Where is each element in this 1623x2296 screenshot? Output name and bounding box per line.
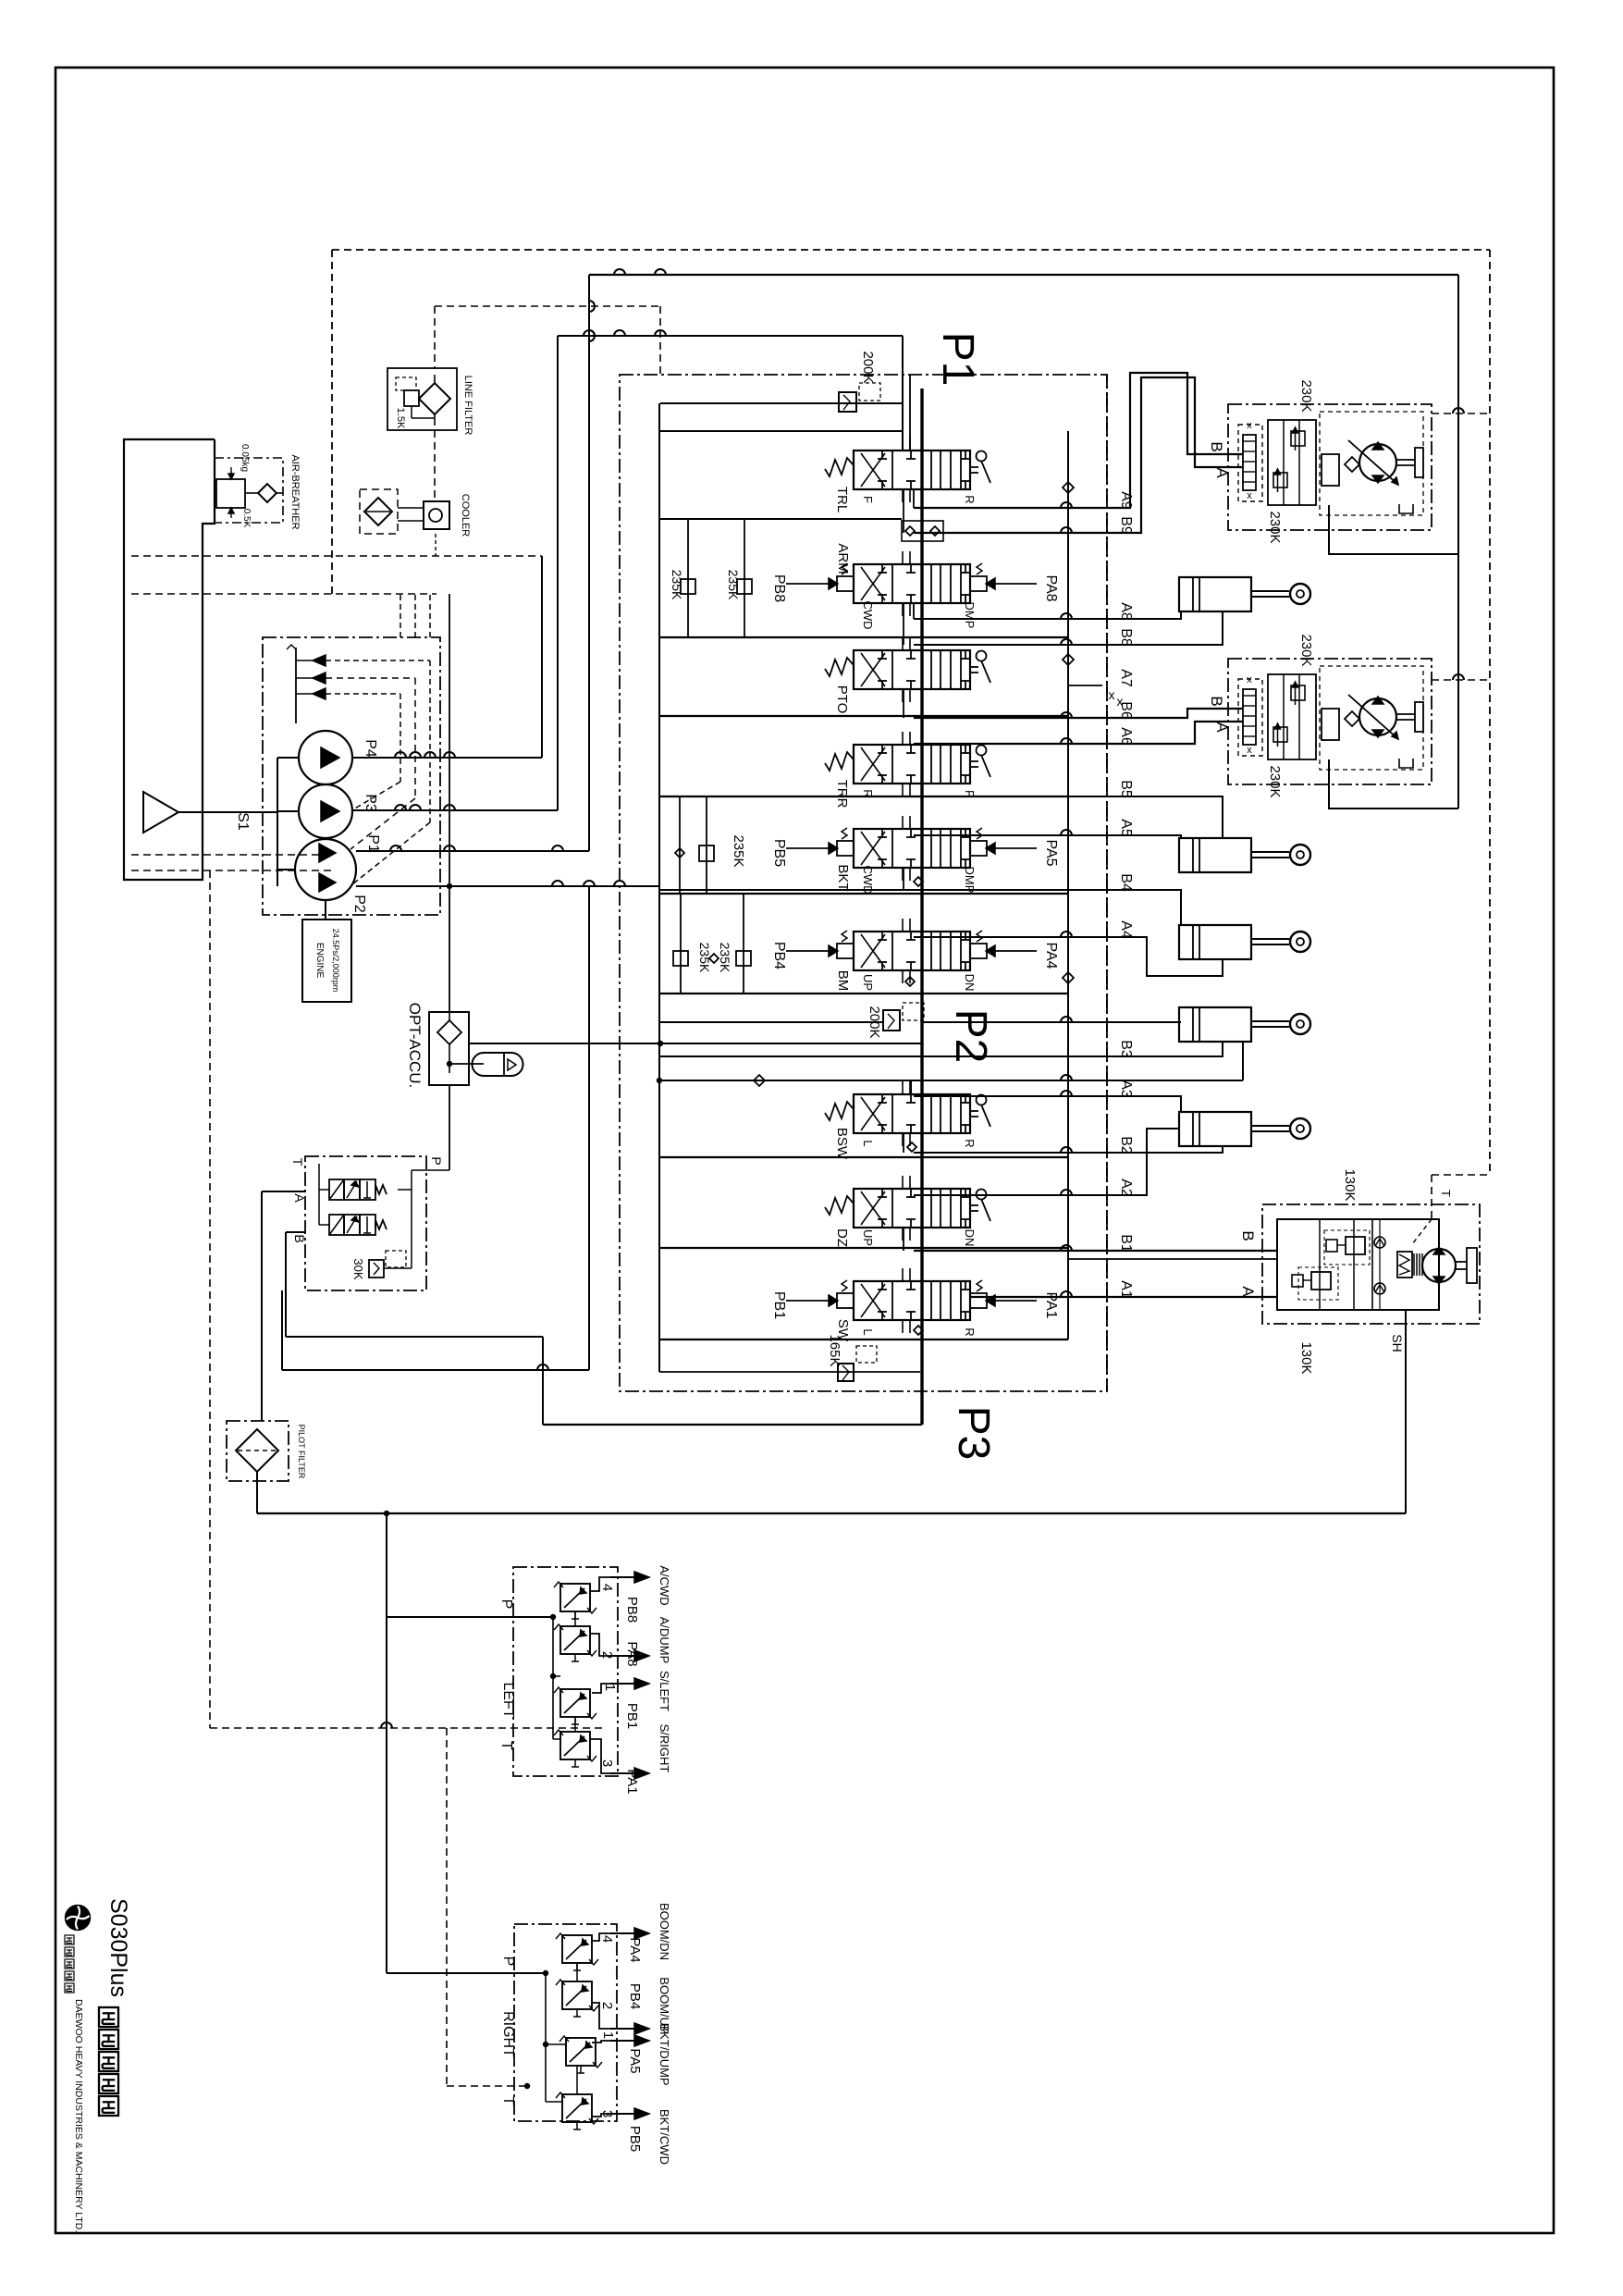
A port line to pilot filter (262, 1191, 305, 1192)
accumulator line into bank (469, 1043, 922, 1044)
travel motor 1 counterbalance block (1268, 420, 1316, 505)
svg-text:P: P (498, 1599, 514, 1610)
B1 line to swing motor (914, 1250, 1277, 1252)
travel motor 1 brake shuttle (1238, 425, 1262, 501)
165K relief line (659, 1371, 920, 1373)
A5 line to bucket cylinder (914, 835, 1181, 838)
svg-text:T: T (290, 1158, 305, 1167)
svg-text:A2: A2 (1118, 1179, 1134, 1197)
200K main relief valve (660, 402, 903, 404)
travel motor T dashed links (1432, 413, 1490, 414)
B9 line to travel motor 1 (914, 377, 1243, 533)
travel motor 1 motor sub-circuit (1322, 454, 1339, 486)
Korean company name small (65, 1935, 74, 1944)
relief valve 30K (369, 1260, 384, 1278)
travel motor 1 enclosure (1228, 404, 1432, 530)
svg-text:4: 4 (599, 1935, 615, 1943)
valve bank right return gallery (1067, 431, 1069, 1339)
hydraulic cylinder 3 (1179, 925, 1251, 959)
RIGHT output BOOM/DN (592, 1933, 610, 1941)
main control valve dash-dot enclosure P1/P2/P3 (620, 375, 1107, 1391)
svg-text:230K: 230K (1298, 379, 1314, 412)
LEFT pilot valve 2 (560, 1626, 590, 1654)
A6 line to travel motor 2 (914, 722, 1243, 744)
svg-text:ARM: ARM (835, 543, 851, 574)
svg-text:TRR: TRR (834, 780, 850, 809)
svg-text:165K: 165K (827, 1334, 842, 1366)
B4 line to boom cylinder (659, 890, 1181, 925)
drain riser right (1457, 275, 1459, 809)
pump P2 delivery line (356, 885, 659, 887)
svg-text:130K: 130K (1342, 1168, 1358, 1201)
svg-text:P3: P3 (949, 1406, 998, 1461)
hydraulic cylinder 2 (1179, 838, 1251, 872)
svg-text:CWD: CWD (861, 600, 875, 629)
svg-text:235K: 235K (731, 834, 746, 867)
svg-text:S1: S1 (235, 812, 251, 831)
svg-text:P1: P1 (365, 834, 381, 853)
svg-text:235K: 235K (670, 570, 684, 600)
travel motor 1 drain plug (1399, 504, 1413, 513)
svg-text:BKT: BKT (835, 864, 851, 891)
svg-text:1.5K: 1.5K (395, 408, 406, 429)
engine (302, 920, 351, 1002)
P1 supply header to travel motors (589, 274, 1458, 276)
LEFT output S/LEFT (592, 1684, 610, 1693)
return line to tank filter (543, 1424, 922, 1426)
svg-text:4: 4 (599, 1584, 615, 1591)
Daewoo logo (66, 1906, 90, 1930)
svg-text:T: T (498, 1741, 514, 1750)
travel motor 1 hydraulic motor (1359, 444, 1396, 481)
load check bridge TRL-ARM (902, 521, 943, 541)
RIGHT output BKT/DUMP (592, 2041, 610, 2043)
svg-text:0.05kg: 0.05kg (240, 444, 250, 472)
svg-text:B: B (1208, 441, 1225, 451)
svg-text:PB4: PB4 (771, 942, 787, 969)
travel motor 2 counterbalance block (1268, 674, 1316, 759)
svg-text:PA4: PA4 (627, 1937, 643, 1962)
RIGHT pilot valve 2 (562, 1981, 592, 2009)
svg-text:0.5K: 0.5K (241, 509, 252, 528)
spare cylinder cap line (922, 1021, 1181, 1023)
LEFT output S/RIGHT (590, 1739, 610, 1773)
hydraulic tank (124, 439, 215, 880)
B2 line to dozer cylinder rod (914, 1146, 1223, 1153)
svg-text:LINE FILTER: LINE FILTER (462, 376, 473, 436)
pump P4 (299, 731, 352, 784)
pilot supply manifold to remote controls (257, 1512, 1406, 1514)
RIGHT pilot valve 1 (566, 2038, 596, 2066)
travel motor 2 drain (1329, 759, 1458, 809)
RIGHT internal piping (387, 1972, 546, 1974)
svg-text:235K: 235K (697, 943, 712, 973)
svg-text:UP: UP (861, 1229, 875, 1246)
LEFT output A/DUMP (590, 1634, 610, 1656)
svg-text:S030Plus: S030Plus (105, 1898, 131, 1997)
block internal wires (318, 1164, 320, 1190)
pump P1/P2 double pump (295, 839, 356, 900)
svg-text:1: 1 (602, 1684, 618, 1691)
svg-text:DN: DN (963, 974, 977, 992)
svg-text:S/LEFT: S/LEFT (658, 1671, 671, 1711)
pump group dash-dot enclosure (263, 637, 440, 915)
valve section BSW (854, 1094, 970, 1133)
svg-text:1: 1 (600, 2031, 616, 2039)
A8 line to arm cylinder (914, 611, 1181, 619)
svg-text:A/CWD: A/CWD (658, 1565, 671, 1605)
A2 work line (914, 1129, 1179, 1195)
main pressure gallery (920, 389, 923, 1425)
svg-text:P: P (500, 1957, 516, 1967)
svg-text:x: x (1247, 745, 1252, 756)
inter-section check diamonds (914, 877, 923, 886)
svg-text:PA8: PA8 (1043, 574, 1059, 601)
port relief 235K ARM-B (687, 519, 689, 637)
valve bank left gallery (658, 403, 660, 1372)
port relief 235K BKT (679, 796, 681, 894)
tank return dashed stubs (131, 854, 332, 856)
accu supply riser (449, 594, 450, 1012)
svg-text:230K: 230K (1298, 634, 1314, 666)
valve section BKT (854, 829, 970, 868)
line filter (387, 368, 457, 430)
B port line (286, 1231, 305, 1233)
valve section DZ (854, 1189, 970, 1228)
pilot dashed line from line filter to valve bank (435, 305, 660, 307)
solenoid valve block enclosure (305, 1156, 426, 1290)
pump P3 (299, 784, 352, 838)
svg-text:P2: P2 (351, 895, 367, 913)
swing relief valve upper (1346, 1237, 1365, 1254)
svg-text:A7: A7 (1118, 669, 1134, 687)
A9 line to travel motor 1 (914, 373, 1243, 508)
svg-text:30K: 30K (351, 1258, 365, 1279)
LEFT pilot valve 3 (560, 1732, 590, 1759)
valve section SW (854, 1281, 970, 1320)
travel motor 1 drain (1329, 505, 1458, 554)
svg-text:BKT/DUMP: BKT/DUMP (658, 2023, 671, 2085)
pilot tap dashed lines to pump deliveries (326, 660, 430, 661)
svg-text:R: R (861, 789, 875, 797)
P1 standby line down to pilot block (588, 886, 590, 1370)
LEFT pilot valve 4 (560, 1584, 590, 1611)
RIGHT pilot valve 3 (562, 2094, 592, 2122)
pilot tap arrows (295, 648, 297, 723)
return collector lines (286, 1336, 543, 1338)
OPT-ACCU isolation valve (429, 1012, 469, 1085)
solenoid valve lower (329, 1215, 344, 1235)
svg-text:x: x (1247, 420, 1252, 431)
oil cooler (424, 501, 449, 529)
svg-text:P1: P1 (933, 332, 982, 387)
P4 riser to pilot circuit (541, 556, 543, 758)
svg-text:x: x (1247, 490, 1252, 501)
svg-text:A8: A8 (1118, 602, 1134, 621)
oil cooler bypass check (360, 489, 398, 534)
svg-text:B: B (292, 1234, 307, 1242)
svg-text:PA1: PA1 (1043, 1291, 1059, 1318)
svg-text:B2: B2 (1118, 1136, 1134, 1154)
svg-text:P: P (429, 1156, 444, 1165)
svg-text:PB5: PB5 (627, 2126, 643, 2152)
travel motor 2 drain plug (1399, 759, 1413, 768)
svg-text:SH: SH (1390, 1334, 1405, 1352)
svg-text:x: x (1109, 687, 1115, 702)
svg-text:PB8: PB8 (771, 574, 787, 602)
pump P3 delivery line (353, 809, 558, 811)
svg-text:OPT-ACCU.: OPT-ACCU. (406, 1003, 424, 1089)
svg-text:A3: A3 (1118, 1080, 1134, 1098)
air breather (215, 458, 283, 523)
travel motor 2 motor sub-circuit (1322, 709, 1339, 740)
svg-text:PB1: PB1 (624, 1703, 640, 1729)
tank return dashed boundary (332, 249, 1490, 251)
svg-text:PB5: PB5 (771, 839, 787, 867)
svg-text:S/RIGHT: S/RIGHT (658, 1724, 671, 1773)
svg-text:x: x (1117, 694, 1124, 709)
remote control T dashed line (210, 1727, 606, 1729)
svg-text:COOLER: COOLER (460, 494, 471, 537)
B8 line to arm cylinder rod (914, 611, 1223, 645)
svg-text:BKT/CWD: BKT/CWD (658, 2109, 671, 2165)
svg-text:R: R (963, 1139, 977, 1147)
travel motor 1 output shaft (1396, 459, 1415, 461)
svg-text:BOOM/DN: BOOM/DN (658, 1903, 671, 1960)
valve to work-port stubs (913, 489, 915, 508)
pilot line through filter and cooler (434, 306, 436, 368)
remote control valve RIGHT enclosure (514, 1924, 617, 2121)
svg-text:2: 2 (599, 2002, 615, 2009)
B5 line to bucket cylinder rod (914, 796, 1223, 838)
svg-text:A4: A4 (1118, 920, 1134, 939)
travel motor 2 output shaft (1396, 713, 1415, 715)
svg-text:B5: B5 (1118, 780, 1134, 798)
svg-text:R: R (963, 1327, 977, 1336)
swing motor valve block (1277, 1219, 1439, 1310)
svg-text:DMP: DMP (963, 602, 977, 629)
svg-text:PA5: PA5 (627, 2048, 643, 2073)
svg-text:L: L (861, 1328, 875, 1335)
svg-text:B4: B4 (1118, 873, 1134, 892)
svg-text:BSW: BSW (834, 1128, 850, 1160)
svg-text:P2: P2 (946, 1009, 995, 1064)
valve inlet feeds (659, 430, 902, 432)
Korean schematic title (99, 2007, 118, 2027)
mid-inlet 200K relief (659, 1021, 884, 1023)
svg-text:B: B (1239, 1230, 1257, 1241)
swing makeup checks (1374, 1237, 1385, 1248)
valve section PTO (854, 650, 970, 689)
svg-text:230K: 230K (1267, 511, 1283, 543)
LEFT output A/CWD (590, 1577, 610, 1591)
svg-text:235K: 235K (726, 570, 741, 600)
pilot filter (227, 1421, 289, 1481)
B3 line to spare cylinder rod (1068, 1042, 1223, 1056)
svg-text:200K: 200K (867, 1006, 882, 1038)
svg-text:130K: 130K (1298, 1341, 1314, 1374)
svg-text:T: T (1439, 1190, 1453, 1197)
A1 line to swing motor (970, 1296, 1277, 1298)
svg-text:DZ: DZ (834, 1228, 850, 1247)
swing SH drain to pilot manifold (1405, 1310, 1407, 1513)
svg-text:ENGINE: ENGINE (314, 943, 325, 979)
solenoid valve upper (329, 1179, 344, 1200)
pilot return dashed link to tank (131, 555, 542, 557)
RIGHT output BKT/CWD (592, 2114, 610, 2117)
valve section TRR (854, 745, 970, 784)
svg-text:DAEWOO HEAVY INDUSTRIES & MACH: DAEWOO HEAVY INDUSTRIES & MACHINERY LTD. (73, 1999, 84, 2232)
svg-text:UP: UP (861, 974, 875, 991)
svg-text:A5: A5 (1118, 819, 1134, 837)
swing relief valve lower (1311, 1272, 1331, 1290)
RIGHT pilot valve 4 (562, 1935, 592, 1963)
accumulator (449, 1063, 484, 1065)
svg-text:PILOT FILTER: PILOT FILTER (297, 1425, 306, 1479)
B6 line to travel motor 2 (914, 709, 1243, 718)
svg-text:B3: B3 (1118, 1040, 1134, 1058)
hydraulic cylinder 4 (1179, 1007, 1251, 1042)
suction line to pumps (178, 811, 277, 813)
swing T dashed line (1432, 1174, 1490, 1176)
svg-text:A: A (1213, 467, 1231, 478)
work port dash-dot boundary (1106, 375, 1108, 1391)
svg-text:B8: B8 (1118, 628, 1134, 647)
svg-text:PB8: PB8 (624, 1597, 640, 1623)
suction strainer S1 (143, 792, 178, 833)
A7 plugged port marks (1068, 685, 1102, 686)
valve section ARM (854, 564, 970, 603)
svg-text:RIGHT: RIGHT (500, 2011, 516, 2057)
svg-text:200K: 200K (860, 351, 876, 383)
svg-text:P4: P4 (363, 739, 378, 758)
svg-text:PA5: PA5 (1043, 839, 1059, 866)
svg-text:T: T (500, 2096, 516, 2105)
P3 supply header to valve inlet (558, 335, 903, 337)
pilot pump P4 output line (352, 757, 542, 759)
swing motor enclosure (1262, 1204, 1480, 1324)
pilot filter outlet line (256, 1472, 258, 1513)
svg-text:L: L (861, 1140, 875, 1146)
LEFT pilot valve 1 (560, 1689, 590, 1717)
section separator lines (659, 636, 1068, 638)
port relief 235K ARM-A (744, 519, 745, 637)
swing brake spring stack (1397, 1252, 1412, 1278)
svg-text:PB1: PB1 (771, 1291, 787, 1319)
svg-text:R: R (963, 495, 977, 503)
svg-text:PA4: PA4 (1043, 942, 1059, 969)
svg-text:LEFT: LEFT (500, 1682, 516, 1718)
gallery check diamonds (1063, 482, 1074, 493)
travel motor 2 enclosure (1228, 659, 1432, 784)
travel motor 2 brake shuttle (1238, 679, 1262, 756)
svg-text:PTO: PTO (834, 685, 850, 714)
A3 line to dozer cylinder (914, 1096, 1181, 1112)
svg-text:B: B (1208, 696, 1225, 706)
svg-text:24.5Ps/2,000rpm: 24.5Ps/2,000rpm (331, 929, 340, 993)
remote control valve LEFT enclosure (513, 1567, 618, 1776)
svg-text:TRL: TRL (834, 487, 850, 512)
valve section TRL (854, 451, 970, 489)
svg-text:A: A (292, 1193, 307, 1203)
RIGHT output BOOM/UP (592, 2003, 610, 2029)
svg-text:A/DUMP: A/DUMP (658, 1617, 671, 1664)
valve section BM (854, 932, 970, 970)
hydraulic cylinder 1 (1179, 577, 1251, 611)
P1 riser (588, 275, 590, 851)
pilot supply drop to remote controls (386, 1513, 387, 1973)
travel motor 2 hydraulic motor (1359, 698, 1396, 735)
swing hydraulic motor (1422, 1249, 1456, 1282)
swing output shaft (1456, 1261, 1467, 1263)
A4 line to boom cylinder rod (914, 937, 1223, 976)
P3 riser to control valve (557, 336, 559, 810)
svg-text:F: F (861, 496, 875, 503)
pump P1 delivery line (356, 850, 589, 852)
negative control line (659, 1080, 1243, 1081)
pilot supply dashed header (131, 593, 436, 595)
svg-text:BM: BM (835, 970, 851, 992)
svg-text:PB4: PB4 (627, 1983, 643, 2009)
svg-text:A: A (1239, 1286, 1257, 1297)
drain dashed drop to remote control T line (209, 870, 211, 1728)
svg-text:A: A (1213, 722, 1231, 733)
svg-text:235K: 235K (718, 943, 732, 973)
svg-text:DN: DN (963, 1229, 977, 1247)
svg-text:x: x (1247, 674, 1252, 685)
svg-text:AIR-BREATHER: AIR-BREATHER (289, 454, 301, 529)
LEFT internal piping (387, 1616, 553, 1618)
port relief 235K BM x2 (680, 894, 682, 994)
hydraulic cylinder 5 (1179, 1112, 1251, 1146)
svg-text:230K: 230K (1267, 765, 1283, 797)
